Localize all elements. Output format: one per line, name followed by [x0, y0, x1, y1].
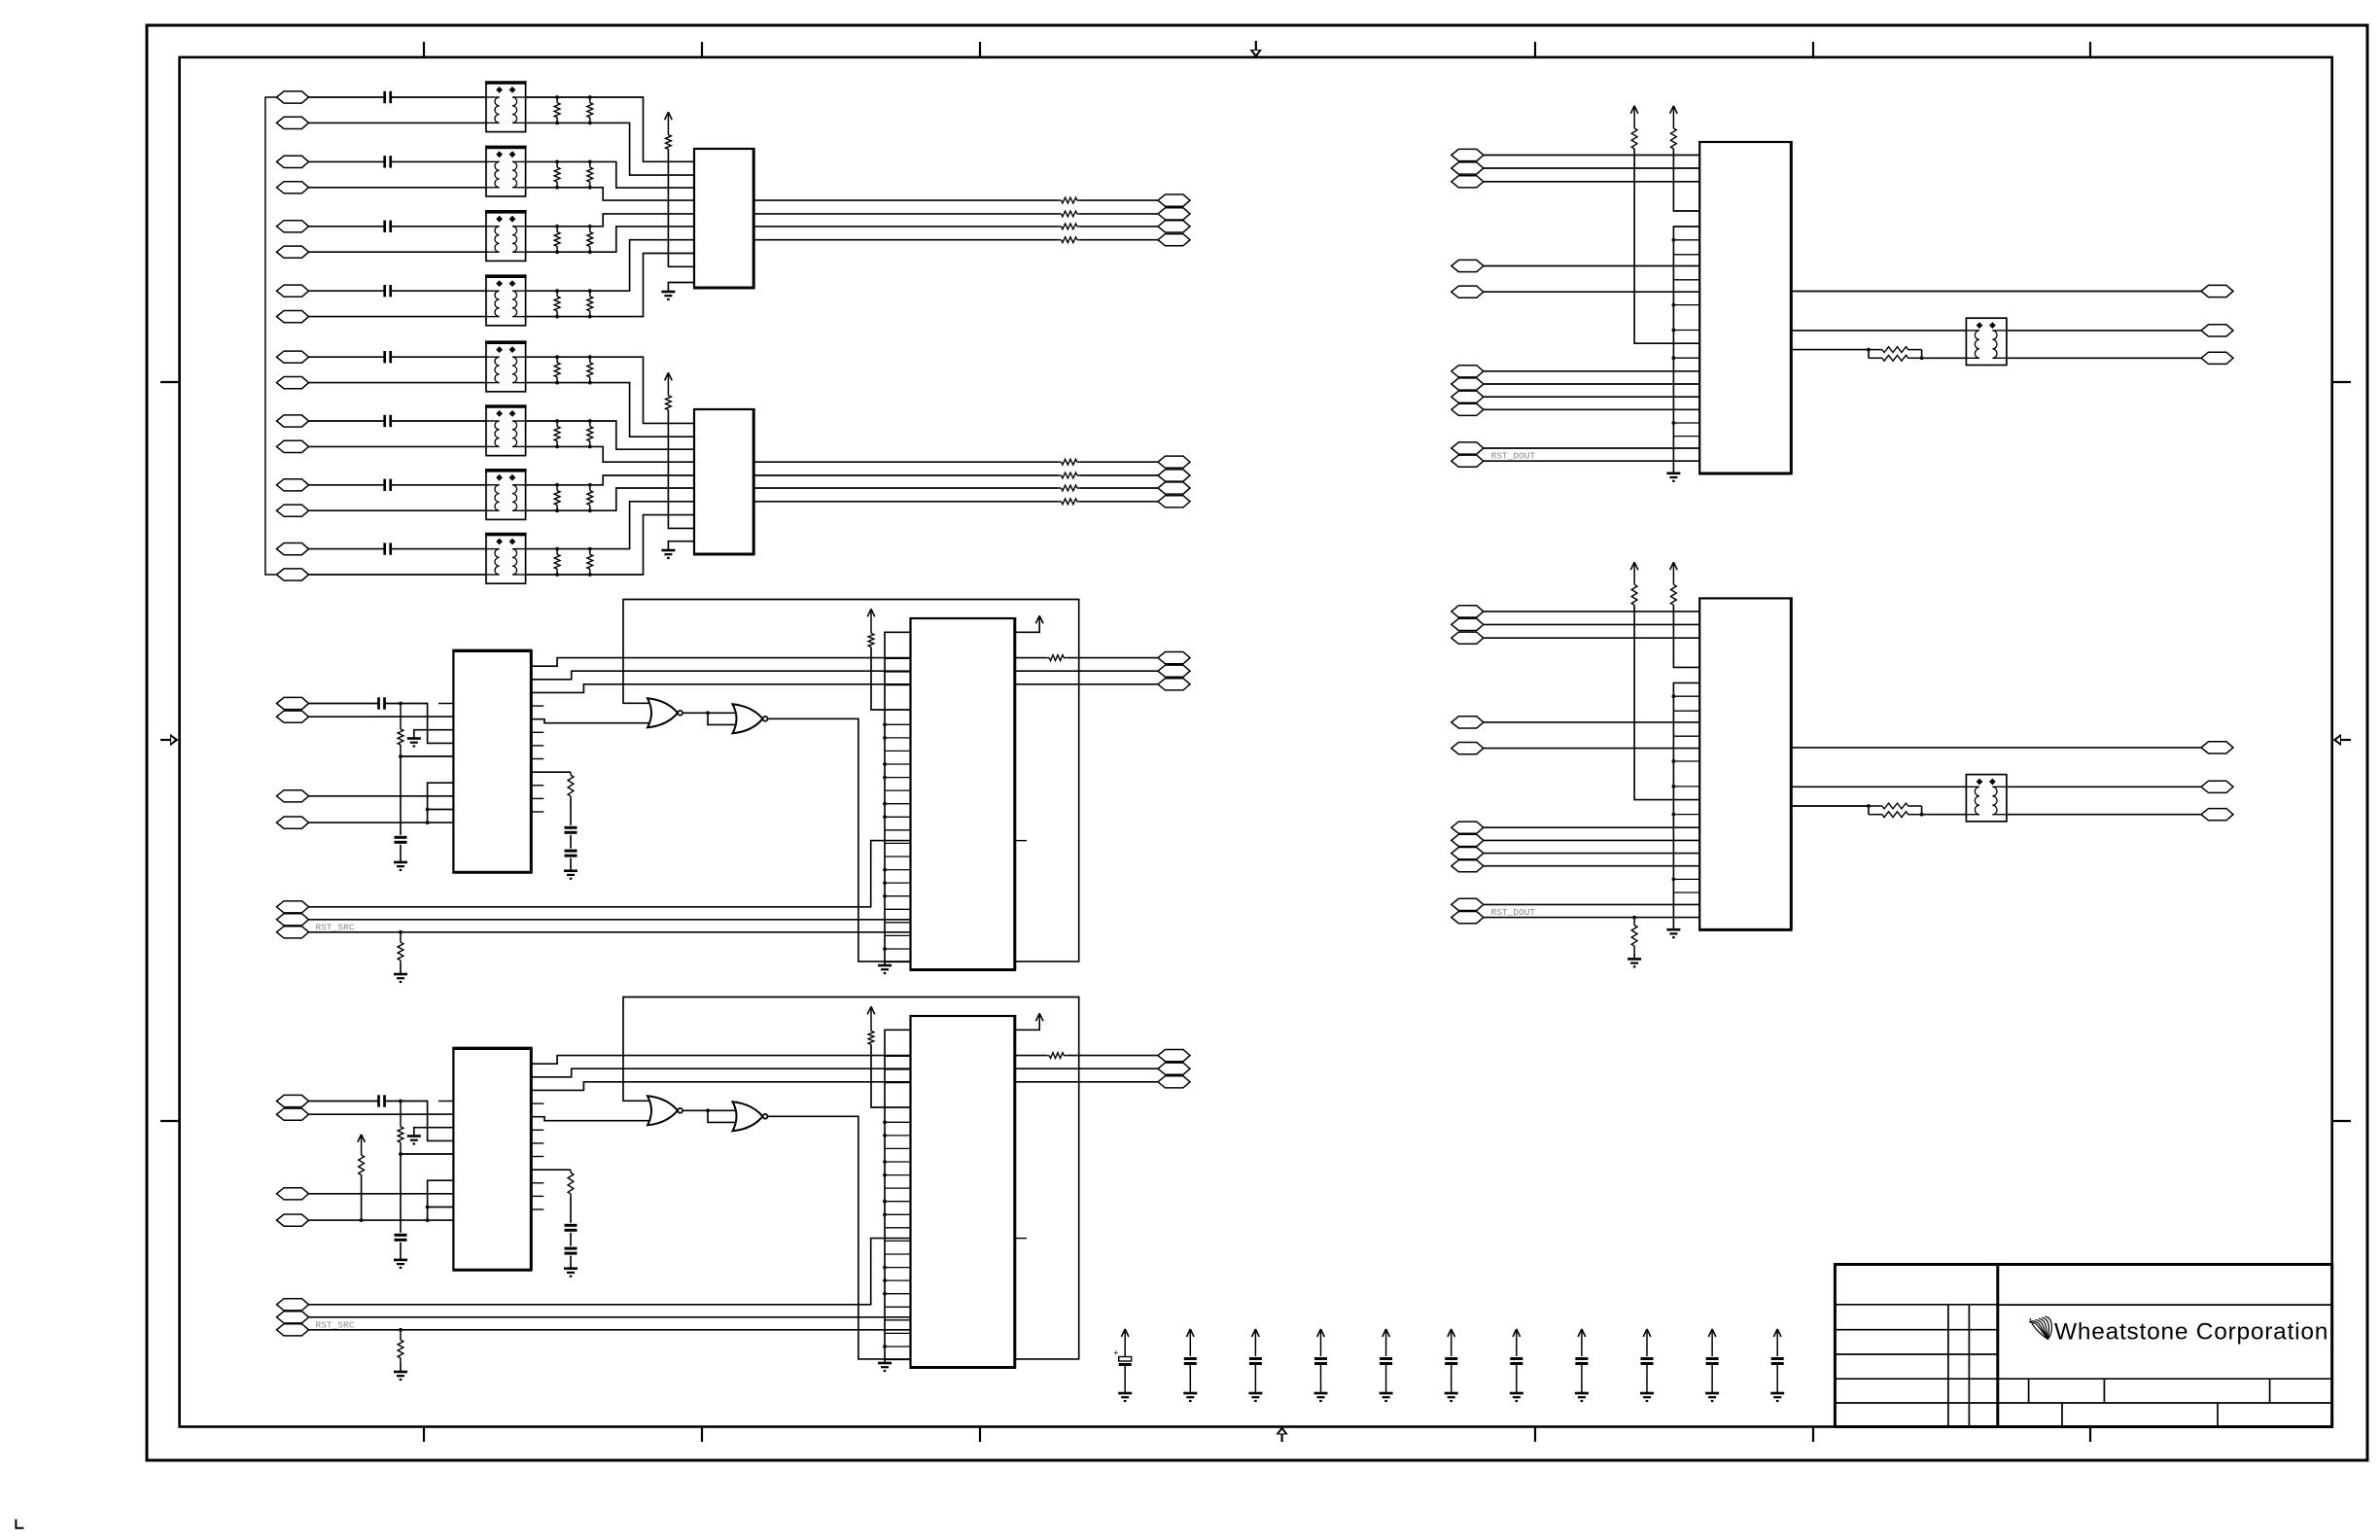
resistor D R-out1 [1046, 1053, 1067, 1059]
wire E bus stub [1673, 436, 1699, 437]
wire E CTL3 [1484, 396, 1699, 398]
wire T3 secondary top [526, 226, 590, 227]
connector J5A (IN5+) [277, 351, 309, 363]
wire T4 secondary top [526, 290, 590, 292]
wire D NOR1 out [682, 1109, 708, 1111]
ground C chain [564, 871, 577, 879]
power arrow D big +V [867, 1006, 875, 1031]
wire F bus stub [1673, 786, 1699, 787]
connector D RST-B [277, 1312, 309, 1323]
resistor R8a [554, 549, 560, 575]
resistor E R-par1 [1869, 347, 1922, 353]
wire D U-SRC right stub 9 [531, 1182, 543, 1184]
ground C bus [878, 965, 892, 973]
connector E CK1 [1452, 260, 1484, 271]
connector F CTL2 [1452, 834, 1484, 846]
capacitor C7 [385, 479, 391, 491]
wire C NOR2 in A [708, 712, 736, 714]
wire D NC stub right [1015, 1238, 1027, 1240]
junction C B [399, 754, 402, 758]
wire F bus stub [1673, 814, 1699, 816]
wire T7 secondary top [526, 484, 590, 486]
wire E bus stub [1673, 422, 1699, 424]
wire C out1 b [1067, 657, 1158, 659]
border tick right y=393 [2332, 381, 2351, 383]
op-amp D U-SRC (sample rate converter) [452, 1047, 532, 1271]
resistor R-out U2.3 [1059, 485, 1080, 491]
wire D U-SRC right stub 10 [531, 1195, 543, 1197]
junction D A [399, 1100, 402, 1103]
wire U1 pin 10 to ground [668, 283, 694, 293]
border tick left y=393 [160, 381, 180, 383]
junction D tie1 [426, 1206, 430, 1209]
wire F D-IN1 [1484, 611, 1699, 612]
power arrow E +VB [1670, 106, 1678, 128]
ground D bias [394, 1260, 407, 1268]
connector J1A (IN1+) [277, 91, 309, 103]
resistor R1a [554, 97, 560, 122]
capacitor D C-chain2 [565, 1248, 577, 1253]
wire T1 secondary top [526, 96, 590, 98]
resistor C R-bias [398, 704, 403, 756]
wire J7A to C7 [309, 484, 385, 486]
wire C bus [885, 632, 911, 965]
connector F CTL1 [1452, 822, 1484, 833]
junction C bus dot 20 [883, 894, 887, 898]
power arrow E +VA [1630, 106, 1638, 128]
border arrow right [2333, 734, 2352, 746]
junction C bus dot 19 [883, 881, 887, 885]
wire E outB a [1791, 330, 1966, 332]
connector J3A (IN3+) [277, 221, 309, 232]
wire C RST-A [309, 841, 911, 907]
connector J8B (IN8-) [277, 569, 309, 580]
resistor R6b [587, 421, 593, 446]
junction C bus dot 7 [883, 722, 887, 726]
wire F D-IN2 [1484, 623, 1699, 625]
wire D bus stub 10 [885, 1161, 911, 1163]
wire F outB a [1791, 786, 1966, 787]
ground E bus [1666, 473, 1680, 481]
resistor E R-par2 [1869, 355, 1922, 361]
wire F outB b [2007, 786, 2201, 787]
resistor R1b [587, 97, 593, 122]
wire E D-IN1 [1484, 155, 1699, 157]
wire F CTL3 [1484, 853, 1699, 855]
capacitor C-byp3 with power and ground [1248, 1329, 1262, 1401]
wire C pin3 to ground [414, 730, 454, 739]
wire F CK1 [1484, 721, 1699, 723]
resistor R3b [587, 227, 593, 252]
Wheatstone logo feather [2029, 1316, 2051, 1340]
resistor D R-rst [398, 1330, 403, 1360]
ground D pin3 [407, 1137, 421, 1144]
wire C U-SRC right stub 6 [531, 745, 543, 747]
connector E OUTC [2201, 352, 2233, 364]
ground C rst [394, 974, 407, 982]
op-amp C U-SRC (sample rate converter) [452, 649, 532, 873]
junction dots T3 termination [555, 225, 592, 254]
wire C4 to T4 [391, 290, 486, 292]
connector C IN-C [277, 790, 309, 802]
wire F CK2 [1484, 748, 1699, 750]
svg-text:RST_SRC: RST_SRC [316, 1319, 355, 1330]
wire C IN-C to pin8 [309, 795, 454, 797]
wire D bus stub 17 [885, 1253, 911, 1255]
wire F CTL2 [1484, 839, 1699, 841]
border tick top x=2150 [2089, 42, 2091, 57]
resistor R3a [554, 227, 560, 252]
wire E CK1 [1484, 265, 1699, 267]
wire D IN-B to pin2 [309, 1113, 454, 1115]
wire C bus stub 19 [885, 882, 911, 884]
wire U2 pin 10 to ground [668, 542, 694, 550]
connector C RST-A [277, 901, 309, 913]
wire C IN-D to pin10 [309, 822, 454, 823]
wire E RSTD-A [1484, 447, 1699, 449]
junction E res pair 1 [1867, 348, 1871, 352]
wire F bus stub [1673, 710, 1699, 712]
wire J1B to T1 [309, 122, 487, 123]
junction dots T4 termination [555, 289, 592, 318]
resistor C R-chain [568, 772, 574, 799]
wire D bus stub 19 [885, 1279, 911, 1281]
wire C bus stub 14 [885, 816, 911, 818]
wire bank1 +V rail to U1 pin 9 [668, 149, 694, 266]
junction C bus dot 18 [883, 868, 887, 872]
wire C IN-B to pin2 [309, 716, 454, 717]
capacitor C C-in [379, 697, 385, 709]
connector J7B (IN7-) [277, 505, 309, 516]
junction dots T7 termination [555, 483, 592, 512]
wire J4A to C4 [309, 290, 385, 292]
op-amp U2 (quad line receiver bank2) [693, 408, 754, 555]
wire D pin7/9 tie [428, 1180, 454, 1220]
resistor R2a [554, 161, 560, 187]
wire C right +V stub [1015, 623, 1039, 632]
wire C bus stub 11 [885, 777, 911, 779]
connector JO-U1.4 [1158, 234, 1190, 246]
wire J8A to C8 [309, 548, 385, 550]
junction C bus dot 14 [883, 815, 887, 819]
junction F bus dot [1672, 694, 1676, 698]
wire E bus stub [1673, 254, 1699, 256]
border tick top x=436 [423, 42, 425, 57]
wire D bus stub 21 [885, 1306, 911, 1308]
capacitor C-byp8 with power and ground [1575, 1329, 1589, 1401]
wire U2 output 3 [753, 487, 1058, 489]
wire D bus stub 23 [885, 1332, 911, 1334]
wire D bus stub 13 [885, 1201, 911, 1203]
resistor R4b [587, 291, 593, 316]
wire bank2 ch route to U2 pin 5 [590, 475, 694, 485]
connector E CTL3 [1452, 391, 1484, 402]
border tick top x=1865 [1812, 42, 1814, 57]
border tick top x=1008 [979, 42, 981, 57]
wire J7B to T7 [309, 509, 487, 511]
resistor R4a [554, 291, 560, 316]
wire C rst res to gnd [400, 962, 402, 974]
resistor F R-VA [1631, 584, 1637, 605]
wire C bus stub 2 [885, 657, 911, 659]
title block left row y=1341.8 [1835, 1304, 1997, 1306]
wire F outC a [1791, 805, 1869, 807]
resistor R-out U1.4 [1059, 237, 1080, 243]
junction dots T1 termination [555, 95, 592, 124]
wire U1 output 2 [753, 213, 1058, 215]
wire bank2 ch route to U2 pin 2 [590, 383, 694, 437]
wire U2 output 4 [753, 501, 1058, 503]
border tick left y=1153 [160, 1120, 180, 1122]
wire D bus [885, 1030, 911, 1363]
connector F OUTA [2201, 742, 2233, 753]
wire D bus stub 18 [885, 1267, 911, 1269]
wire C3 to T3 [391, 226, 486, 227]
wire D U-SRC right stub 6 [531, 1142, 543, 1144]
transformer F T-out [1966, 775, 2006, 822]
wire F RSTD-A [1484, 903, 1699, 905]
wire C RST-C [309, 931, 911, 933]
connector JO-U1.3 [1158, 221, 1190, 232]
title block row B col x=2121.0 [2061, 1403, 2063, 1427]
connector E RSTD-A [1452, 442, 1484, 454]
border arrow bottom center [1276, 1426, 1287, 1442]
wire T7 secondary bottom [526, 509, 590, 511]
wire D bus stub 8 [885, 1135, 911, 1137]
wire D IN-D to pin10 [309, 1219, 454, 1221]
connector J5B (IN5-) [277, 377, 309, 389]
title block left row y=1393.0 [1835, 1353, 1997, 1355]
wire J6B to T6 [309, 445, 487, 447]
wire C1 to T1 [391, 96, 486, 98]
junction D bus dot 13 [883, 1200, 887, 1204]
wire bank2 ch route to U2 pin 7 [590, 502, 694, 549]
wire C bus stub 7 [885, 723, 911, 725]
wire C bus stub 10 [885, 763, 911, 765]
wire J4B to T4 [309, 316, 487, 318]
wire D +V to U pin [871, 1044, 911, 1107]
capacitor C-byp9 with power and ground [1640, 1329, 1654, 1401]
wire D chain mid1 [570, 1197, 572, 1223]
wire C U-SRC to NOR1 input B [531, 719, 652, 723]
input bus bracket (banks 1-2) [265, 97, 277, 575]
wire J6A to C6 [309, 420, 385, 422]
connector D OUT3 [1158, 1076, 1190, 1088]
wire bank1 ch route to U1 pin 3 [590, 161, 694, 188]
wire C bus stub 13 [885, 803, 911, 805]
junction dots T8 termination [555, 547, 592, 577]
junction D bus dot 20 [883, 1292, 887, 1296]
wire F outC c [2007, 814, 2201, 816]
capacitor D C-f [395, 1235, 407, 1240]
wire E res pair join [1921, 350, 1923, 359]
capacitor D C-in [379, 1095, 385, 1106]
capacitor C-byp1 with power and ground [1113, 1329, 1132, 1401]
wire U1 output 1 to connector [1080, 199, 1158, 201]
connector D OUT1 [1158, 1050, 1190, 1062]
title block row A col x=2164.4 [2103, 1379, 2105, 1403]
wire E CK2 [1484, 291, 1699, 293]
wire C +V to U pin [871, 647, 911, 710]
resistor R-out U1.3 [1059, 224, 1080, 229]
wire D bias chain down [400, 1154, 402, 1233]
capacitor C-byp6 with power and ground [1445, 1329, 1458, 1401]
connector JO-U2.4 [1158, 496, 1190, 507]
op-amp F U-DOUT (line driver) [1698, 597, 1792, 930]
wire U1 output 3 to connector [1080, 226, 1158, 227]
wire D U-SRC top edge bold [452, 1047, 532, 1050]
wire D U-SRC right stub 5 [531, 1129, 543, 1131]
capacitor C-byp5 with power and ground [1380, 1329, 1393, 1401]
resistor C R-out1 [1046, 655, 1067, 661]
resistor R7b [587, 485, 593, 510]
transformer T8 [485, 535, 527, 584]
title block left col 2 [1968, 1305, 1970, 1427]
wire D bus stub 7 [885, 1121, 911, 1123]
resistor R5a [554, 357, 560, 382]
power arrow bank1 (+V) [665, 112, 673, 135]
connector J4A (IN4+) [277, 285, 309, 297]
wire D chain top [531, 1169, 571, 1171]
junction D B [399, 1152, 402, 1156]
wire D stair 3 [531, 1082, 910, 1091]
junction C tie2 [426, 821, 430, 824]
title block left row y=1367.7 [1835, 1329, 1997, 1331]
wire D pin1 stub [438, 1101, 453, 1102]
wire D out1 b [1067, 1055, 1158, 1057]
wire C NOR2 in B [708, 713, 736, 724]
junction E bus dot [1672, 356, 1676, 360]
wire F CTL4 [1484, 865, 1699, 867]
junction F bus dot [1672, 785, 1676, 788]
border arrow left [160, 734, 179, 746]
ground C pin3 [407, 739, 421, 747]
connector D IN-D [277, 1214, 309, 1226]
connector JO-U2.2 [1158, 470, 1190, 481]
wire C pin5 tap [401, 755, 453, 757]
connector F CTL4 [1452, 860, 1484, 872]
wire bank2 +V rail to U2 pin 9 [668, 410, 694, 529]
border tick right y=1153 [2332, 1120, 2351, 1122]
wire T8 secondary top [526, 548, 590, 550]
wire C U-SRC top edge bold [452, 649, 532, 652]
wire E +VB to pin [1673, 149, 1699, 211]
resistor R9 bank1 pullup [666, 135, 672, 150]
transformer T6 [485, 406, 527, 456]
connector E CK2 [1452, 286, 1484, 297]
wire F bus stub [1673, 695, 1699, 697]
wire E CTL2 [1484, 383, 1699, 385]
junction D RST-C [399, 1328, 402, 1332]
op-amp D NOR2 gate [733, 1102, 768, 1131]
wire C stair 2 [531, 671, 910, 680]
op-amp C NOR1 gate [647, 698, 682, 727]
wire D bus stub 11 [885, 1174, 911, 1176]
connector JO-U2.3 [1158, 482, 1190, 494]
wire E outC c [2007, 357, 2201, 359]
wire E res pair drop [1868, 350, 1870, 359]
wire D pullup to IN-D [361, 1175, 363, 1221]
connector F CK1 [1452, 717, 1484, 728]
junction D pullup [360, 1218, 364, 1222]
wire C cap to junction and jog [385, 704, 454, 744]
connector C IN-D [277, 817, 309, 828]
connector JO-U2.1 [1158, 456, 1190, 468]
transformer T5 [485, 342, 527, 392]
resistor R8b [587, 549, 593, 575]
wire C bus stub 15 [885, 829, 911, 831]
op-amp D NOR1 gate [647, 1096, 682, 1125]
wire F D-IN3 [1484, 637, 1699, 639]
junction F res pair 2 [1920, 813, 1924, 817]
wire D bus stub 25 [885, 1359, 911, 1361]
op-amp D U-DIG (digital receiver) [910, 1015, 1016, 1369]
wire bank1 ch route to U1 pin 6 [590, 227, 694, 252]
wire D feedback loop [623, 997, 1079, 1359]
connector E CTL1 [1452, 366, 1484, 377]
corner fold mark [16, 1520, 23, 1528]
capacitor C C-f [395, 837, 407, 842]
power arrow C big +V [867, 609, 875, 633]
capacitor C-byp4 with power and ground [1314, 1329, 1328, 1401]
wire D NOR2 in A [708, 1109, 736, 1111]
junction D bus dot 8 [883, 1134, 887, 1137]
wire T2 secondary bottom [526, 187, 590, 189]
wire D stair 1 [531, 1056, 910, 1065]
wire J2B to T2 [309, 187, 487, 189]
wire U1 output 1 [753, 199, 1058, 201]
connector E CTL2 [1452, 378, 1484, 390]
wire D pin5 tap [401, 1153, 453, 1155]
resistor R-out U1.2 [1059, 211, 1080, 217]
wire F bus stub [1673, 735, 1699, 737]
resistor D R-pwr [868, 1031, 874, 1044]
junction E bus dot [1672, 303, 1676, 307]
border tick top x=1579 [1534, 42, 1536, 57]
wire bank2 ch route to U2 pin 1 [590, 357, 694, 423]
wire D U-SRC right stub 7 [531, 1156, 543, 1158]
transformer T4 [485, 276, 527, 326]
op-amp E U-DOUT (line driver) [1698, 141, 1792, 474]
wire C bus stub 21 [885, 908, 911, 910]
wire U1 output 4 to connector [1080, 239, 1158, 241]
wire D NOR2 in B [708, 1110, 736, 1122]
resistor F R-par2 [1869, 812, 1922, 818]
wire U1 output 4 [753, 239, 1058, 241]
wire D rst res to gnd [400, 1360, 402, 1372]
wire C out2 [1015, 670, 1158, 672]
border tick bottom x=1579 [1534, 1427, 1536, 1443]
wire C U-SRC right stub 3 [531, 705, 543, 707]
wire D bus stub 9 [885, 1147, 911, 1149]
transformer T2 [485, 147, 527, 196]
wire U1 output 3 [753, 226, 1058, 227]
wire C pin9 tap [428, 809, 454, 811]
power arrow bank2 (+V) [665, 372, 673, 396]
wire C U-SRC right stub 7 [531, 758, 543, 760]
wire D pin9 tap [428, 1207, 454, 1208]
capacitor C8 [385, 542, 391, 554]
capacitor C-byp7 with power and ground [1510, 1329, 1523, 1401]
wire E gnd bus [1673, 227, 1699, 473]
connector F RSTD-B [1452, 912, 1484, 924]
resistor C R-pwr [868, 633, 874, 647]
junction C bus dot 24 [883, 947, 887, 951]
wire T5 secondary top [526, 356, 590, 358]
connector C OUT3 [1158, 679, 1190, 690]
junction C nor [706, 711, 710, 715]
wire T6 secondary top [526, 420, 590, 422]
